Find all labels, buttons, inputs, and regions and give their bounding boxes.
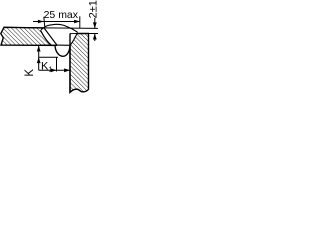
svg-text:25 max: 25 max — [44, 9, 79, 21]
svg-text:K: K — [24, 69, 36, 77]
svg-text:2±1: 2±1 — [87, 0, 99, 18]
